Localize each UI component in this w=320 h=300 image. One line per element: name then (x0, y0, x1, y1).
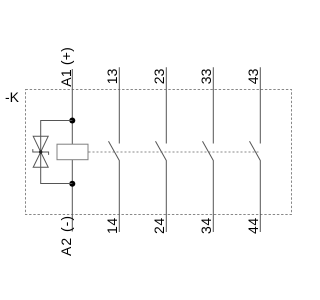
svg-text:14: 14 (104, 217, 120, 234)
svg-text:33: 33 (198, 68, 214, 84)
svg-text:-K: -K (5, 89, 20, 105)
svg-text:A1 (+): A1 (+) (58, 47, 74, 87)
svg-text:A2 (-): A2 (-) (58, 215, 74, 256)
svg-text:34: 34 (198, 217, 214, 234)
svg-text:13: 13 (104, 68, 120, 84)
svg-text:43: 43 (245, 68, 261, 84)
svg-text:44: 44 (245, 217, 261, 234)
svg-text:24: 24 (151, 217, 167, 234)
svg-text:23: 23 (151, 68, 167, 84)
